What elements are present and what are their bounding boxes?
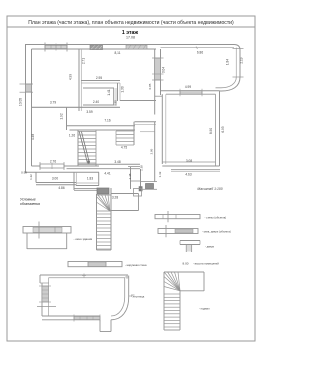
wall: vertical C — [117, 83, 119, 101]
svg-text:План этажа (части этажа), план: План этажа (части этажа), план объекта н… — [28, 20, 234, 26]
window 3.04 in middle wall — [155, 58, 161, 80]
wall: room bottom outer — [162, 165, 219, 167]
wall: room top outer — [161, 90, 220, 92]
svg-text:4.63: 4.63 — [185, 173, 191, 177]
porch line right lower — [171, 169, 220, 171]
svg-text:1.30: 1.30 — [121, 86, 125, 92]
wall below room 1.83 — [74, 188, 97, 190]
window 4.99 in room top wall — [180, 91, 202, 95]
stair detail shaft edges — [163, 272, 165, 330]
svg-text:10.05: 10.05 — [19, 98, 23, 106]
closet walls — [83, 87, 114, 89]
svg-text:Масштаб 1:100: Масштаб 1:100 — [197, 187, 222, 191]
detail plan rounded corner — [111, 276, 129, 320]
winder stair fan — [97, 194, 112, 196]
page frame — [7, 16, 255, 341]
svg-text:8.00: 8.00 — [182, 261, 188, 265]
window 2.76 symbol — [40, 164, 64, 168]
wall: room bottom inner — [162, 161, 215, 163]
wall: room left outer — [161, 94, 163, 164]
detail plan cross mark — [37, 306, 56, 308]
stair detail right line — [203, 272, 205, 291]
stair detail fan — [164, 272, 180, 291]
svg-text:6.93: 6.93 — [221, 126, 225, 132]
door rect lower middle — [134, 189, 142, 197]
svg-text:2.76: 2.76 — [50, 159, 56, 163]
svg-text:0.85: 0.85 — [148, 83, 152, 89]
upper flight treads — [116, 130, 134, 132]
svg-text:1.48: 1.48 — [128, 173, 132, 179]
svg-text:4.75: 4.75 — [121, 146, 127, 150]
svg-text:1.92: 1.92 — [60, 113, 64, 119]
svg-text:3.04: 3.04 — [162, 67, 166, 73]
legend wall bar symbol — [155, 215, 200, 219]
svg-text:- наружная стена: - наружная стена — [125, 264, 147, 267]
stairwell wall right — [140, 169, 142, 191]
svg-text:2.86: 2.86 — [149, 148, 153, 154]
svg-text:4.99: 4.99 — [185, 85, 191, 89]
detail plan side dash — [131, 294, 135, 296]
svg-text:4.48: 4.48 — [31, 134, 35, 140]
legend window bracket — [26, 233, 28, 249]
hatched window lower middle — [146, 184, 154, 190]
svg-text:- высота помещений: - высота помещений — [193, 261, 219, 265]
wall: rounded corner inner arc — [216, 77, 237, 88]
detail plan bottom wall — [42, 315, 100, 317]
lobby wall band upper — [135, 121, 157, 123]
svg-text:1.41: 1.41 — [107, 89, 111, 95]
legend window symbol bar — [23, 227, 71, 234]
svg-text:- лестница: - лестница — [131, 296, 145, 299]
wall: horizontal B — [81, 80, 120, 82]
svg-text:1.22: 1.22 — [29, 174, 33, 180]
wall: stair-hall bottom lower — [67, 168, 141, 170]
hatched window above winder — [97, 188, 109, 194]
wc walls — [130, 167, 132, 189]
wall: middle vertical outer — [154, 49, 156, 115]
wall: room top inner — [166, 93, 216, 95]
room 1.83 walls — [98, 172, 100, 185]
wing corner rounding — [234, 45, 240, 51]
svg-text:3.48: 3.48 — [114, 160, 120, 164]
wall: wing top outer — [156, 44, 234, 46]
stair detail landing bottom — [180, 290, 204, 292]
svg-text:0.80: 0.80 — [113, 100, 117, 106]
legend door symbol — [180, 240, 200, 242]
svg-text:0.98: 0.98 — [21, 171, 27, 175]
wall: horizontal E — [32, 106, 121, 108]
svg-text:3.00: 3.00 — [52, 177, 58, 181]
svg-text:- окна, двери (объекта): - окна, двери (объекта) — [202, 230, 231, 234]
wall: room right inner — [215, 94, 217, 166]
svg-text:- окно здания: - окно здания — [74, 237, 93, 241]
svg-text:8.90: 8.90 — [209, 128, 213, 134]
staircase left edge — [77, 130, 79, 166]
winder stair walls — [96, 194, 98, 250]
wall: top outer (left wing) — [25, 44, 156, 46]
detail plan top-left notch — [39, 275, 41, 283]
detail plan left wall — [41, 283, 43, 316]
svg-text:1.84: 1.84 — [226, 59, 230, 65]
wall: wing right inner — [235, 48, 237, 77]
window in left wall — [26, 84, 32, 92]
svg-text:7.16: 7.16 — [104, 118, 110, 122]
corridor wall G lower line — [70, 129, 136, 131]
wall: wing right outer — [239, 50, 241, 77]
svg-text:3.08: 3.08 — [186, 159, 192, 163]
svg-text:- двери: - двери — [205, 246, 215, 249]
svg-text:1.32: 1.32 — [158, 171, 162, 177]
svg-text:17.08: 17.08 — [126, 36, 135, 40]
svg-text:2.95: 2.95 — [96, 76, 102, 80]
svg-text:1.38: 1.38 — [139, 165, 143, 171]
wall: middle vertical inner — [160, 49, 162, 95]
header separator line — [7, 26, 255, 28]
wall: stair-hall bottom upper — [78, 163, 140, 165]
wall: vertical F — [66, 107, 68, 130]
wall: rounded corner outer arc — [220, 77, 241, 91]
svg-text:8,11: 8,11 — [115, 51, 121, 55]
wall: wing top inner — [161, 47, 235, 49]
detail plan bottom window — [74, 316, 100, 319]
dimension tick 6.86 — [196, 47, 198, 50]
wing window ticks — [233, 48, 244, 50]
staircase right edge — [95, 130, 97, 166]
wall: interior vertical A — [78, 49, 80, 111]
stair detail top line — [164, 271, 204, 273]
detail plan top wall — [40, 274, 128, 276]
svg-text:3.28: 3.28 — [112, 196, 118, 200]
svg-text:4.86: 4.86 — [58, 186, 64, 190]
svg-text:2.71: 2.71 — [82, 58, 86, 64]
svg-text:1.83: 1.83 — [87, 177, 93, 181]
svg-text:обозначения: обозначения — [20, 202, 40, 206]
legend window bar symbol — [158, 229, 198, 234]
corridor wall G upper line — [67, 125, 136, 127]
porch walls — [35, 172, 37, 182]
stair detail treads — [164, 293, 180, 295]
wall: top inner (left wing) — [32, 48, 157, 50]
wall: horizontal D — [120, 100, 156, 102]
staircase diagonal up-lines — [79, 132, 87, 164]
svg-text:1.26: 1.26 — [69, 134, 75, 138]
svg-text:4.99: 4.99 — [69, 74, 73, 80]
detail plan chimney — [99, 320, 101, 332]
svg-text:2.40: 2.40 — [93, 100, 99, 104]
wall: room left inner — [165, 94, 167, 164]
svg-text:2.19: 2.19 — [240, 57, 244, 63]
svg-text:- подвал: - подвал — [199, 308, 210, 311]
lobby wall band lower — [135, 123, 157, 125]
window W2 in top wall (cross-hatched) — [90, 45, 103, 50]
wall: room right outer — [219, 91, 221, 166]
detail plan left window — [42, 286, 49, 302]
hatched wall segment in top wall — [126, 45, 147, 49]
wall: left outer — [25, 44, 27, 173]
legend outer wall bar — [68, 262, 122, 267]
wall: left inner — [31, 49, 33, 166]
svg-text:3.79: 3.79 — [50, 101, 56, 105]
winder straight treads — [97, 213, 112, 215]
staircase main flight treads — [78, 131, 96, 133]
svg-text:- стены (объекта): - стены (объекта) — [205, 215, 227, 219]
window W1 in top wall — [45, 45, 67, 48]
wall connector at room top-left — [155, 95, 163, 97]
svg-text:4.41: 4.41 — [104, 172, 110, 176]
svg-text:3.59: 3.59 — [86, 110, 92, 114]
svg-text:6.86: 6.86 — [197, 51, 203, 55]
wall: bottom outer — [25, 171, 99, 173]
detail plan tick marks — [82, 275, 86, 277]
wall: bottom inner — [32, 165, 100, 167]
lobby inner line — [140, 131, 155, 133]
